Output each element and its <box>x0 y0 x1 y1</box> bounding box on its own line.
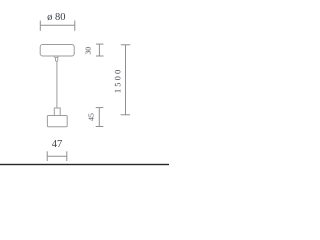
dimension tick top (30) <box>96 43 104 45</box>
dimension line 1500 <box>125 45 127 115</box>
dimension line ø 80 <box>40 24 75 26</box>
dimension tick right (ø 80) <box>74 21 76 31</box>
dimension tick bottom (1500) <box>121 114 130 116</box>
dimension tick top (45) <box>96 107 104 109</box>
dimension tick left (ø 80) <box>39 21 41 31</box>
suspension cable <box>56 61 58 108</box>
cord grip loop <box>56 57 58 61</box>
svg-text:ø 80: ø 80 <box>47 12 65 23</box>
dimension tick bottom (30) <box>96 55 104 57</box>
svg-text:45: 45 <box>87 113 96 121</box>
cord grip flare left <box>54 57 56 58</box>
cord grip flare right <box>57 57 59 58</box>
dimension tick left (47) <box>46 151 48 161</box>
lamp socket <box>54 108 60 116</box>
dimension line 45 <box>98 108 100 127</box>
lamp shade <box>47 116 67 127</box>
dimension tick top (1500) <box>121 44 131 46</box>
svg-text:47: 47 <box>52 139 63 150</box>
dimension line 47 <box>47 155 67 157</box>
dimension tick right (47) <box>66 151 68 161</box>
lamp canopy <box>40 45 74 57</box>
floor baseline <box>0 164 169 165</box>
svg-text:30: 30 <box>84 47 93 55</box>
dimension tick bottom (45) <box>96 126 104 128</box>
dimension line 30 <box>98 44 100 56</box>
